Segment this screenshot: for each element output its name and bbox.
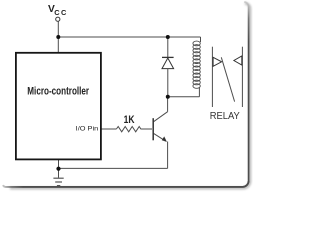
svg-text:1K: 1K: [124, 114, 135, 126]
svg-text:I/O Pin: I/O Pin: [76, 125, 99, 132]
svg-text:CC: CC: [54, 8, 67, 17]
svg-text:RELAY: RELAY: [210, 111, 240, 122]
svg-text:Micro-controller: Micro-controller: [27, 86, 89, 98]
